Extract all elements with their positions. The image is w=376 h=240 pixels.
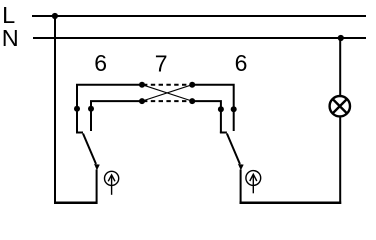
node N junction — [338, 35, 344, 41]
node right switch terminal 7 — [218, 106, 224, 112]
svg-text:N: N — [2, 25, 19, 51]
switch S1 lever — [83, 134, 96, 165]
switch S2 actuator circle — [246, 171, 261, 186]
switch S1 actuator circle — [105, 171, 119, 185]
svg-text:6: 6 — [94, 50, 107, 76]
svg-text:7: 7 — [155, 50, 168, 76]
wire top traveller left solid segment — [77, 85, 142, 133]
wire L feed down — [54, 16, 56, 204]
wire top traveller right solid segment — [192, 85, 234, 131]
wire L line — [32, 15, 366, 17]
wire top traveller dashed segment — [143, 84, 191, 86]
node right switch terminal 6 — [231, 106, 237, 112]
wire N line — [33, 37, 366, 39]
node crossover top-left — [139, 82, 145, 88]
lamp E1 circle — [330, 96, 350, 116]
lamp E1 cross stroke B — [333, 99, 347, 113]
wire bottom traveller right solid segment — [192, 101, 221, 133]
switch S1 lever arrowhead — [94, 164, 100, 170]
node L junction — [52, 13, 58, 19]
node crossover bottom-left — [139, 98, 145, 104]
switch S1 actuator arrow chevron — [108, 175, 115, 181]
node crossover bottom-right — [189, 98, 195, 104]
node left switch terminal 7 — [88, 106, 94, 112]
wire bottom-left rail — [54, 202, 98, 205]
switch S2 actuator arrow chevron — [250, 174, 257, 181]
switch S2 actuator arrow tail — [252, 175, 254, 194]
wire bottom traveller left solid segment — [91, 101, 142, 131]
node left switch terminal 6 — [74, 106, 80, 112]
switch S1 actuator arrow tail — [111, 175, 113, 194]
wire bottom-right rail — [240, 202, 342, 205]
lamp E1 cross stroke A — [333, 99, 347, 113]
wire lamp branch — [339, 38, 341, 204]
wire crossover diagonal B — [142, 85, 192, 101]
wire right switch contact foot — [220, 132, 227, 134]
switch S2 lever arrowhead — [238, 164, 244, 170]
svg-text:6: 6 — [235, 50, 248, 76]
wire bottom traveller dashed segment — [143, 100, 191, 102]
wire crossover diagonal A — [142, 85, 192, 101]
switch S2 lever — [227, 134, 240, 165]
wire right switch pole — [240, 170, 242, 205]
wire left switch pole — [96, 170, 98, 205]
node crossover top-right — [189, 82, 195, 88]
wire left switch contact foot — [76, 132, 83, 134]
